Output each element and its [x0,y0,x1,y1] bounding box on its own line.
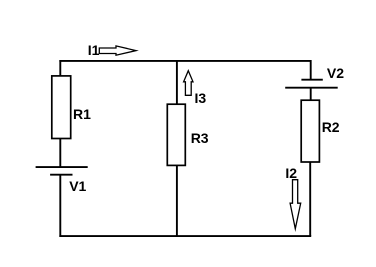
battery V1 long plate [36,166,88,168]
battery V2 short plate [301,79,322,81]
wire top horizontal [59,60,311,62]
wire right vertical (top wire to V2) [310,60,312,80]
wire R1 to V1 [59,139,61,167]
wire left vertical top (corner to R1) [59,60,61,76]
svg-text:I3: I3 [195,90,207,106]
wire V2 to R2 [310,88,312,101]
battery V1 short plate [50,174,72,176]
resistor R1 [52,76,71,139]
svg-text:R2: R2 [322,119,340,135]
resistor R3 [167,104,185,165]
resistor R2 [301,100,319,162]
wire V1 to bottom [59,175,61,237]
arrow I2 (current down) [290,180,301,229]
arrow I3 (current up) [184,71,193,96]
wire bottom horizontal [59,235,311,237]
svg-text:I2: I2 [285,165,297,181]
wire R2 to bottom [309,162,311,236]
arrow I1 (current right) [99,46,136,55]
svg-text:V1: V1 [69,178,86,194]
wire middle vertical top [176,60,178,105]
wire middle vertical bottom [176,166,178,236]
battery V2 long plate [285,87,338,89]
svg-text:I1: I1 [88,42,100,58]
svg-text:V2: V2 [327,65,344,81]
svg-text:R1: R1 [73,106,91,122]
svg-text:R3: R3 [191,130,209,146]
